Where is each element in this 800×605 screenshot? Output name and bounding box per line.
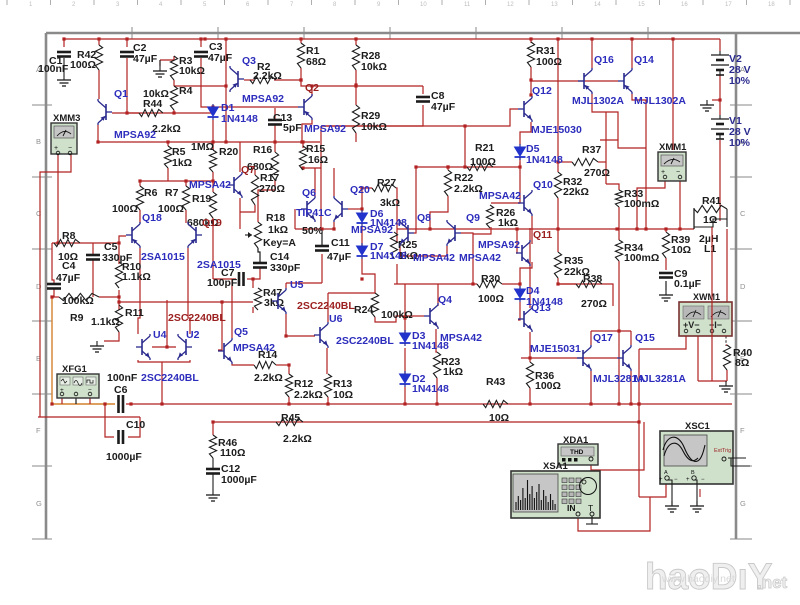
svg-text:Q1: Q1 [114,88,128,100]
wire R3-R4 to Q3 column [174,85,226,87]
svg-text:+: + [686,477,690,483]
svg-text:R19: R19 [192,193,211,205]
resistor R28 [352,45,359,70]
resistor R35 [554,252,561,278]
resistor R36 [526,362,533,388]
wire U pair emitters [138,360,190,362]
wire R37 left [558,161,572,163]
wire R36 bottom [529,388,531,404]
svg-text:Q20: Q20 [350,184,370,196]
wire R24 to Q4 base loop [375,316,414,322]
wire XMM1 right terminal [679,180,681,229]
svg-text:R11: R11 [125,307,144,319]
wire I- to R40 top [726,344,727,346]
wire C3 bottom to D1 [201,58,213,107]
wire C1 top lead [63,39,65,47]
wire input node row [52,242,119,244]
wire R30 row right [502,283,520,285]
wire R38 left [558,283,576,285]
wire D3-D2 [404,348,406,374]
svg-text:C11: C11 [331,237,350,249]
svg-text:U2: U2 [186,329,200,341]
wire R32 bottom [557,198,559,229]
transistor Q8 [400,220,414,246]
wire Q15 emitter down [630,371,632,404]
wire R26 bottom to Q9 base [473,227,491,234]
wire R42 top lead [98,39,100,45]
wire scope A ground lead [667,480,672,505]
wire C9 bottom lead [665,281,667,290]
resistor R37 [572,158,598,165]
wire Q4 emitter to R23 [436,329,437,352]
ground C12 [206,490,220,501]
capacitor C11 [315,246,329,251]
svg-text:1N4148: 1N4148 [526,154,563,166]
wire R37 right [598,161,606,163]
wire Q16 emitter up [591,39,593,68]
wire XFG1 - lead [89,396,91,404]
svg-text:F: F [36,426,41,435]
svg-text:330pF: 330pF [102,252,133,264]
wire R32 top lead [557,162,559,172]
wire C4 bottom lead [53,289,55,297]
wire V+ to R37 node [557,39,559,162]
ground scope A [665,501,679,512]
resistor R39 [662,232,669,258]
resistor R8 [54,239,80,246]
svg-text:.net: .net [757,573,788,592]
svg-text:50%: 50% [302,225,324,237]
potentiometer R18 [245,222,262,248]
wire Q6 collector up [314,168,316,196]
svg-text:1Ω: 1Ω [703,214,717,226]
svg-text:100Ω: 100Ω [158,203,184,215]
svg-text:MPSA42: MPSA42 [479,190,521,202]
svg-text:C: C [740,209,746,218]
transistor Q3 [230,66,244,92]
wire gnd tap [159,60,161,66]
wire C3 top lead [200,39,202,47]
svg-text:10kΩ: 10kΩ [361,121,387,133]
svg-text:Q6: Q6 [302,187,316,199]
svg-text:MPSA92: MPSA92 [304,123,346,135]
wire output sense column [638,349,640,497]
resistor R47 [254,288,261,310]
wire R27 to R25 [396,188,397,243]
svg-text:0.1µF: 0.1µF [674,278,702,290]
wire R10 top lead [118,243,120,264]
wire Q2 emitter [302,120,312,142]
svg-text:10%: 10% [729,75,751,87]
svg-text:−: − [674,477,678,483]
resistor R4 [170,86,177,110]
svg-text:2SA1015: 2SA1015 [197,259,241,271]
row letters [36,65,746,508]
diode D4 [515,286,526,302]
wire R7 to Q19 [185,210,187,223]
svg-text:47µF: 47µF [327,251,352,263]
wire L1 to XWM1 I+ through instrument [711,227,713,341]
svg-text:R7: R7 [165,187,179,199]
svg-text:L1: L1 [704,243,716,255]
wire bottom feedback trunk [213,421,639,423]
wire C14 to R47 [253,268,260,288]
svg-text:R41: R41 [702,195,721,207]
wire XSA1 T bar [586,523,598,525]
svg-text:13: 13 [551,2,558,8]
wire R42 to Q1 emitter [98,70,100,99]
svg-text:2SC2240BL: 2SC2240BL [336,335,394,347]
svg-text:U4: U4 [153,329,167,341]
svg-text:F: F [740,426,745,435]
svg-text:MPSA92: MPSA92 [114,129,156,141]
oscilloscope XSC1 [659,421,733,484]
svg-text:R43: R43 [486,376,505,388]
svg-text:100Ω: 100Ω [536,56,562,68]
ground scope B [690,501,704,512]
svg-text:R18: R18 [266,212,285,224]
wire R4 bottom [173,110,175,113]
wire C5 top lead [92,243,94,254]
capacitor C6 [119,395,124,413]
wire R19 top lead [212,181,214,192]
svg-text:2SC2240BL: 2SC2240BL [297,300,355,312]
ground R11 [90,341,104,352]
wire R20 top lead [212,142,214,150]
wire to Q5 base [218,302,222,350]
wire load column [726,229,728,302]
wire C1 bottom lead [63,58,65,75]
wire R38 row [558,284,613,306]
resistor R14 [254,361,276,368]
wire R46 top lead [212,422,214,435]
transistor Q2 [298,94,312,120]
wire U pair base feed [166,300,168,347]
wire R40 bottom node [698,380,727,382]
svg-text:R24: R24 [354,304,373,316]
wire D3 column top [404,284,406,334]
wire R13 bottom [327,397,329,404]
svg-text:MPSA92: MPSA92 [351,224,393,236]
svg-text:Q10: Q10 [533,179,553,191]
wire U5 collector stub [285,283,287,288]
svg-text:R27: R27 [377,177,396,189]
resistor R12 [285,374,292,397]
svg-text:1.1kΩ: 1.1kΩ [122,271,151,283]
wire R22 bottom stair [430,196,448,229]
wire supply mid to gnd [712,99,720,101]
diode D1 [208,104,219,120]
resistor R3 [170,56,177,80]
svg-text:12: 12 [507,2,514,8]
wire to XSA1 IN [578,497,650,531]
wire R1 top lead [300,39,302,43]
wire R34 bottom column [618,261,620,404]
svg-text:XWM1: XWM1 [693,292,720,302]
wire R5 bottom [167,168,169,181]
wire R19 bottom [212,218,214,279]
svg-text:2.2kΩ: 2.2kΩ [283,433,312,445]
wire R12 bottom [288,397,290,404]
svg-text:IN: IN [567,503,576,513]
resistor R15 [299,146,306,170]
wire Q16 base row [531,80,618,82]
svg-text:100mΩ: 100mΩ [624,198,659,210]
wire C2 to R44 [126,58,128,113]
svg-text:D: D [36,282,42,291]
svg-text:100Ω: 100Ω [470,156,496,168]
multimeter XMM1 [658,142,687,181]
svg-text:100Ω: 100Ω [70,59,96,71]
wire mid bias trunk left [295,228,334,230]
transistor Q10 [518,190,532,216]
capacitor C9 [659,273,673,278]
wire R16 to pot [258,180,275,222]
wire C7 row left [213,278,236,280]
wire U6 base row [286,335,315,337]
wire D4 to Q13 base [518,302,520,320]
resistor R44 [139,109,163,116]
wire C10 right loop [128,417,140,437]
wire R3 top [160,56,174,60]
function generator XFG1 [57,364,99,398]
wire V+ top rail [64,38,720,40]
capacitor C13 [268,120,282,125]
wire R31 top lead [530,39,532,43]
svg-text:100Ω: 100Ω [535,380,561,392]
wire D5 bottom [519,158,521,167]
wire XFG1 com lead [75,396,77,404]
wire C11 bottom lead [321,254,323,283]
wire Q17 emitter down [590,371,592,404]
svg-text:R38: R38 [583,273,602,285]
resistor R7 [182,186,189,210]
svg-text:1000µF: 1000µF [221,474,257,486]
wire XMM3 left terminal [57,154,59,243]
svg-text:R16: R16 [253,144,272,156]
wire C4 top lead [52,243,54,283]
svg-text:10kΩ: 10kΩ [179,65,205,77]
svg-text:22kΩ: 22kΩ [563,186,589,198]
capacitor C8 [416,97,430,102]
svg-text:100pF: 100pF [207,277,238,289]
wire R20 bottom [212,172,214,181]
wire VAS to R21 row [464,126,466,167]
wire orange segment to C6 [52,403,115,405]
wire R2 to R1 [274,79,301,81]
svg-text:Q2: Q2 [305,82,319,94]
diode D3 [400,330,411,346]
svg-text:Q11: Q11 [533,229,552,241]
node Q12 base row [530,79,532,81]
capacitor C7 [239,272,244,286]
ground R40 [719,381,733,392]
svg-text:Q3: Q3 [242,55,256,67]
svg-text:Key=A: Key=A [263,237,296,249]
svg-text:R4: R4 [179,85,193,97]
svg-text:MPSA42: MPSA42 [459,252,501,264]
wire R15 top lead [302,142,304,148]
ground supply mid [700,100,714,111]
svg-text:Q12: Q12 [532,85,552,97]
svg-text:2SC2240BL: 2SC2240BL [141,372,199,384]
wire R31 to Q12 [530,67,532,96]
battery V1 [711,115,729,139]
resistor R23 [433,352,440,378]
resistor R41 zigzag [694,205,727,212]
wire R33 top [606,184,619,190]
wire Q15 collector [630,331,632,345]
svg-text:14: 14 [594,2,601,8]
wire R39 top lead [665,229,667,232]
transistor Q7 [228,172,242,198]
svg-text:A: A [664,470,668,476]
wire LTP emitters [400,246,447,256]
resistor R9 [59,293,99,300]
svg-text:R37: R37 [582,144,601,156]
transistor U5 [272,288,286,314]
wire R6 to Q18 [139,210,141,223]
transistor U2 [178,334,192,360]
wire R6 R7 top row [140,180,213,182]
wire Q14 emitter up [631,39,633,68]
svg-text:100Ω: 100Ω [478,293,504,305]
ground C9 [659,290,673,301]
capacitor C14 [253,263,267,268]
transistor Q11 [516,240,530,266]
wire current-mirror top row [98,141,320,143]
svg-text:Q9: Q9 [466,212,480,224]
svg-text:10kΩ: 10kΩ [361,61,387,73]
wire R14 right [276,364,289,366]
wire Q10 emitter [531,216,533,229]
wire Q20 base to D6 [348,208,362,210]
capacitor C2 [120,52,134,57]
transistor Q5 [218,338,232,364]
svg-text:R6: R6 [144,187,158,199]
svg-text:47µF: 47µF [208,52,233,64]
wire D7 bottom to R24 [362,259,375,293]
resistor R34 [615,240,622,261]
battery V2 [711,51,729,75]
wire XMM3 right terminal [40,154,71,417]
svg-text:MPSA42: MPSA42 [189,179,231,191]
svg-text:MPSA42: MPSA42 [413,252,455,264]
svg-text:MPSA92: MPSA92 [242,93,284,105]
wire Q1 base to R44 [112,112,139,114]
wire U6 to R24 row [328,292,375,294]
resistor R19 [209,192,216,218]
svg-text:2.2kΩ: 2.2kΩ [152,123,181,135]
svg-text:G: G [740,499,746,508]
svg-text:MPSA42: MPSA42 [440,332,482,344]
junction dots [97,37,100,40]
wire Q11 base from trunk [516,229,517,253]
wire D2 bottom [404,387,406,404]
resistor R33 [615,190,622,207]
resistor R40 [723,345,730,370]
wire gnd lead C2 [159,60,161,66]
wire D6-D7 [361,226,363,246]
wire C8 top lead [422,86,424,94]
resistor R32 [554,172,561,198]
svg-text:B: B [691,470,695,476]
svg-text:47µF: 47µF [56,272,81,284]
svg-text:1N4148: 1N4148 [221,113,258,125]
resistor R10 [115,262,122,288]
ground near R3 [153,66,167,77]
wire R30 row left [394,283,477,285]
wire Q14 collector down [632,94,646,229]
svg-text:47µF: 47µF [431,101,456,113]
wire C7 row right [247,278,253,280]
svg-text:Q13: Q13 [531,302,551,314]
wire output driver row [521,357,617,359]
wire C11 column top [320,126,322,229]
wire U5 emitter down [285,314,287,336]
wire Q16 collector down [592,94,618,140]
svg-text:2SA1015: 2SA1015 [141,251,185,263]
diode D6 [357,210,368,226]
svg-text:C: C [36,209,42,218]
svg-text:R30: R30 [481,273,500,285]
wire D1 to Q2 base [213,106,298,108]
resistor R1 [297,43,304,68]
resistor R17 [251,175,258,205]
wire through R21 [467,166,493,168]
resistor R22 [444,170,451,196]
top ruler digits [29,2,775,8]
wire XWM1 V+ lead [639,336,686,349]
wire C5 bottom lead [92,260,94,297]
svg-text:10Ω: 10Ω [489,412,509,424]
resistor R38 [576,280,602,287]
wire lower supply trunk [126,403,732,405]
svg-text:+: + [659,477,663,483]
wire C10 left loop [105,404,114,437]
capacitor C4 [47,284,61,289]
svg-text:C4: C4 [62,260,76,272]
svg-text:MJL3281A: MJL3281A [634,373,686,385]
wire R35 top lead [557,229,559,252]
wire R39 to C9 [665,258,667,270]
transistor Q12 [518,96,532,122]
svg-text:10%: 10% [729,137,751,149]
diode D2 [400,371,411,387]
svg-text:U6: U6 [329,313,343,325]
wire to Q18 base [119,236,126,243]
resistor R42 [95,45,102,70]
wire R6 top lead [139,181,141,186]
wire signal input (orange) [51,297,53,404]
wire XMM3 return [38,416,140,418]
wire R1 to Q2 collector [301,68,312,96]
svg-text:1000µF: 1000µF [106,451,142,463]
sheet border frame [46,33,800,539]
capacitor C5 [86,255,100,260]
border tick marks [32,27,752,539]
svg-text:100mΩ: 100mΩ [624,252,659,264]
wire R11 to gnd [104,332,119,341]
svg-text:2.2kΩ: 2.2kΩ [294,389,323,401]
wire C12-gnd [212,474,214,490]
svg-text:2.2kΩ: 2.2kΩ [254,372,283,384]
wire output to scope node [639,496,650,498]
wire Q6 collector node [301,167,321,169]
resistor R5 [164,146,171,168]
svg-text:1kΩ: 1kΩ [443,366,463,378]
wire R25 bottom [396,264,398,284]
